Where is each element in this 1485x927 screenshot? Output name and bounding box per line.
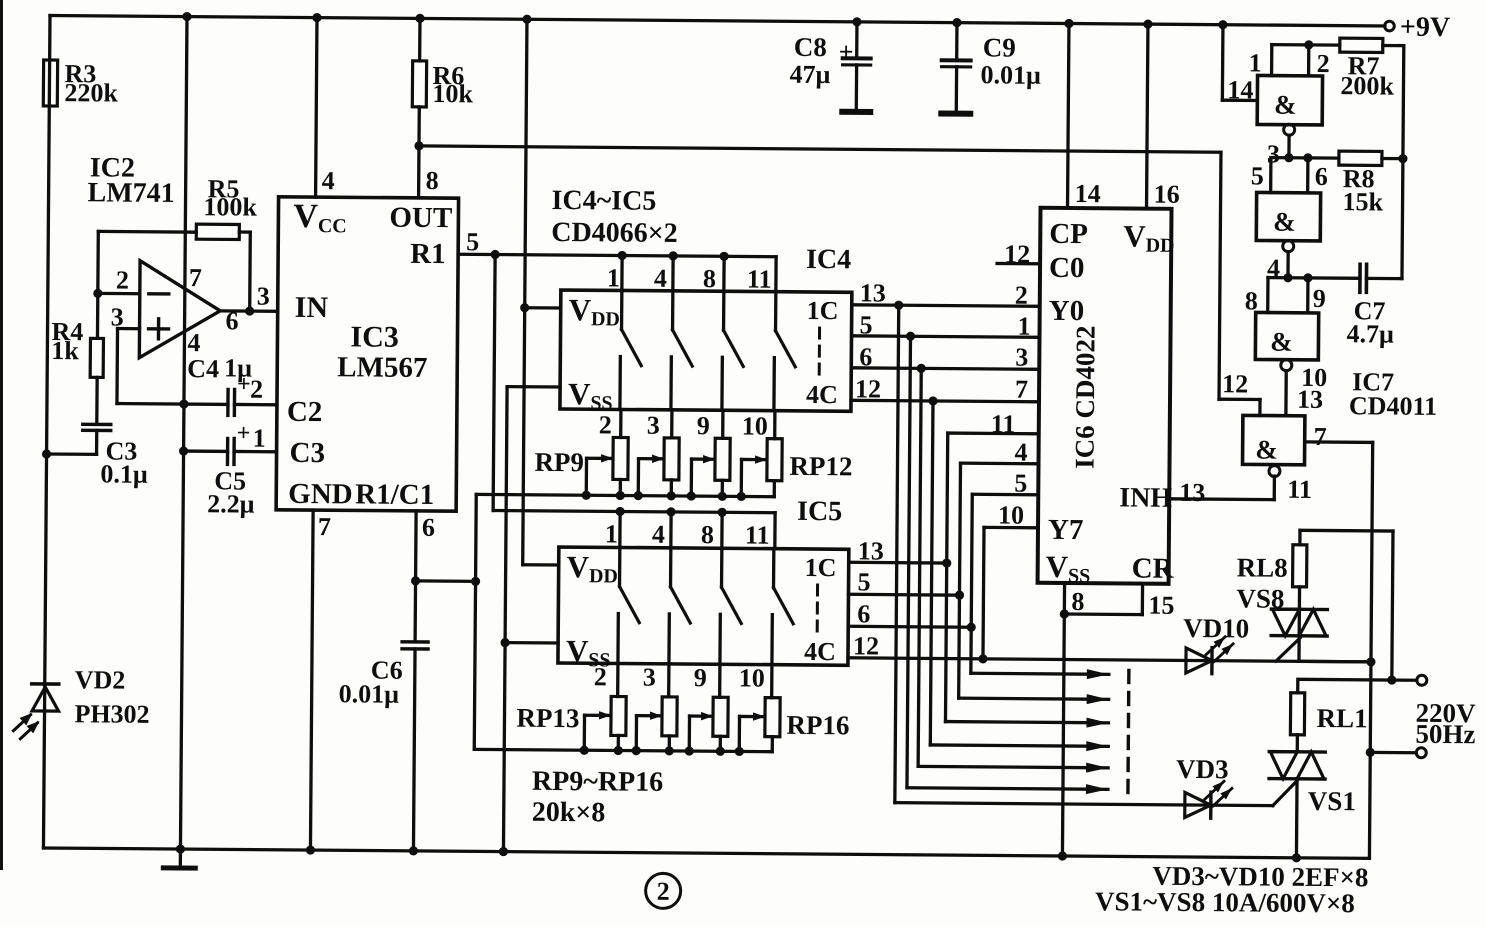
svg-text:5: 5 — [1251, 161, 1264, 190]
svg-text:10: 10 — [998, 500, 1024, 529]
svg-text:2: 2 — [116, 266, 129, 295]
svg-text:1: 1 — [607, 263, 620, 292]
svg-text:50Hz: 50Hz — [1415, 719, 1475, 749]
svg-text:12: 12 — [1004, 240, 1030, 269]
svg-text:1: 1 — [1249, 48, 1262, 77]
svg-text:6: 6 — [859, 342, 872, 371]
svg-text:RP13: RP13 — [516, 703, 579, 733]
svg-text:9: 9 — [697, 411, 710, 440]
svg-text:IC3: IC3 — [350, 320, 399, 353]
svg-text:1C: 1C — [805, 553, 837, 582]
svg-text:&: & — [1255, 434, 1278, 464]
svg-text:2: 2 — [1015, 281, 1028, 310]
svg-text:11: 11 — [747, 264, 772, 293]
svg-text:RP12: RP12 — [789, 451, 852, 481]
svg-text:&: & — [1274, 90, 1297, 120]
svg-text:1: 1 — [605, 519, 618, 548]
svg-text:20k×8: 20k×8 — [532, 797, 606, 829]
svg-text:CD4011: CD4011 — [1349, 391, 1437, 421]
svg-text:6: 6 — [225, 306, 238, 335]
svg-text:IC6 CD4022: IC6 CD4022 — [1069, 325, 1100, 468]
svg-text:2: 2 — [594, 662, 607, 691]
svg-text:VD10: VD10 — [1183, 613, 1249, 644]
svg-text:7: 7 — [1015, 375, 1028, 404]
svg-text:10k: 10k — [432, 79, 473, 108]
svg-text:+: + — [839, 37, 854, 66]
svg-text:220k: 220k — [64, 78, 118, 107]
svg-text:15: 15 — [1148, 591, 1174, 620]
svg-text:1: 1 — [253, 424, 266, 453]
svg-text:+9V: +9V — [1400, 12, 1450, 43]
svg-text:2: 2 — [657, 877, 670, 906]
svg-text:5: 5 — [859, 310, 872, 339]
svg-text:Y0: Y0 — [1049, 295, 1085, 327]
svg-text:14: 14 — [1075, 179, 1101, 208]
svg-text:13: 13 — [1297, 385, 1323, 414]
svg-text:IC4~IC5: IC4~IC5 — [551, 185, 656, 217]
svg-text:RL1: RL1 — [1316, 703, 1367, 733]
svg-text:8: 8 — [1245, 286, 1258, 315]
svg-text:9: 9 — [694, 663, 707, 692]
svg-text:2: 2 — [1317, 49, 1330, 78]
svg-text:1C: 1C — [807, 296, 839, 325]
svg-text:PH302: PH302 — [74, 699, 149, 729]
svg-text:200k: 200k — [1340, 71, 1394, 100]
svg-text:C0: C0 — [1049, 252, 1085, 284]
svg-text:12: 12 — [853, 631, 879, 660]
svg-text:13: 13 — [1179, 478, 1205, 507]
svg-text:11: 11 — [991, 409, 1016, 438]
svg-text:5: 5 — [466, 227, 479, 256]
svg-text:8: 8 — [426, 166, 439, 195]
svg-text:IC4: IC4 — [806, 244, 851, 275]
svg-text:4: 4 — [1014, 438, 1027, 467]
svg-text:4: 4 — [187, 328, 200, 357]
svg-text:RP9~RP16: RP9~RP16 — [532, 766, 663, 798]
svg-text:C4: C4 — [187, 354, 219, 383]
svg-text:5: 5 — [857, 567, 870, 596]
svg-text:8: 8 — [701, 520, 714, 549]
svg-text:LM567: LM567 — [337, 351, 427, 384]
svg-text:4C: 4C — [804, 637, 836, 666]
svg-text:4.7μ: 4.7μ — [1346, 319, 1394, 348]
svg-text:4: 4 — [654, 264, 667, 293]
svg-text:7: 7 — [189, 263, 202, 292]
svg-text:+: + — [237, 371, 251, 397]
svg-text:7: 7 — [318, 512, 331, 541]
svg-text:4C: 4C — [806, 380, 838, 409]
svg-text:4: 4 — [322, 166, 335, 195]
svg-text:0.1μ: 0.1μ — [100, 459, 148, 488]
svg-text:14: 14 — [1227, 75, 1253, 104]
svg-text:GND: GND — [288, 478, 353, 511]
svg-text:7: 7 — [1314, 422, 1327, 451]
svg-text:2: 2 — [250, 375, 263, 404]
svg-text:VD2: VD2 — [75, 665, 126, 694]
svg-text:CP: CP — [1049, 218, 1088, 250]
svg-text:R1/C1: R1/C1 — [355, 478, 434, 511]
svg-text:VS1~VS8 10A/600V×8: VS1~VS8 10A/600V×8 — [1095, 886, 1355, 918]
svg-text:10: 10 — [739, 663, 765, 692]
svg-text:3: 3 — [647, 411, 660, 440]
svg-text:C3: C3 — [289, 437, 325, 469]
svg-text:LM741: LM741 — [87, 177, 174, 209]
svg-text:3: 3 — [1267, 140, 1280, 169]
svg-text:5: 5 — [1014, 469, 1027, 498]
svg-text:IC5: IC5 — [797, 496, 842, 527]
svg-text:12: 12 — [1222, 369, 1248, 398]
svg-text:3: 3 — [643, 663, 656, 692]
svg-text:100k: 100k — [203, 192, 257, 221]
svg-text:CR: CR — [1132, 553, 1175, 585]
svg-text:RP9: RP9 — [534, 447, 584, 477]
svg-text:6: 6 — [422, 513, 435, 542]
svg-text:C2: C2 — [287, 396, 323, 428]
svg-text:INH: INH — [1119, 482, 1172, 513]
svg-text:IN: IN — [295, 291, 329, 324]
svg-text:R1: R1 — [410, 238, 446, 270]
svg-text:1k: 1k — [51, 336, 79, 365]
svg-text:8: 8 — [1071, 587, 1084, 616]
svg-text:OUT: OUT — [389, 202, 452, 234]
svg-text:+: + — [237, 420, 251, 446]
svg-text:RL8: RL8 — [1237, 552, 1288, 582]
svg-text:12: 12 — [855, 374, 881, 403]
svg-text:C8: C8 — [794, 32, 827, 62]
svg-text:11: 11 — [1287, 475, 1312, 504]
svg-text:VD3: VD3 — [1176, 754, 1229, 784]
svg-text:6: 6 — [857, 599, 870, 628]
svg-text:C9: C9 — [983, 32, 1016, 62]
svg-text:2: 2 — [599, 410, 612, 439]
svg-text:13: 13 — [860, 278, 886, 307]
svg-text:&: & — [1273, 207, 1296, 237]
svg-text:3: 3 — [257, 282, 270, 311]
svg-text:2.2μ: 2.2μ — [207, 489, 255, 518]
svg-text:0.01μ: 0.01μ — [980, 60, 1041, 89]
svg-text:10: 10 — [742, 411, 768, 440]
svg-text:15k: 15k — [1342, 187, 1383, 216]
svg-text:RP16: RP16 — [786, 710, 849, 740]
svg-text:1: 1 — [1017, 312, 1030, 341]
svg-text:16: 16 — [1154, 180, 1180, 209]
svg-text:Y7: Y7 — [1048, 514, 1084, 546]
svg-text:47μ: 47μ — [789, 60, 830, 89]
svg-text:8: 8 — [703, 264, 716, 293]
svg-text:13: 13 — [858, 536, 884, 565]
svg-text:CD4066×2: CD4066×2 — [551, 217, 678, 249]
svg-text:0.01μ: 0.01μ — [339, 679, 400, 708]
svg-text:3: 3 — [111, 302, 124, 331]
svg-text:4: 4 — [652, 520, 665, 549]
svg-text:VS1: VS1 — [1308, 786, 1356, 816]
svg-text:3: 3 — [1015, 343, 1028, 372]
svg-text:&: & — [1270, 327, 1293, 357]
svg-text:6: 6 — [1315, 162, 1328, 191]
svg-text:11: 11 — [745, 520, 770, 549]
svg-text:9: 9 — [1313, 284, 1326, 313]
